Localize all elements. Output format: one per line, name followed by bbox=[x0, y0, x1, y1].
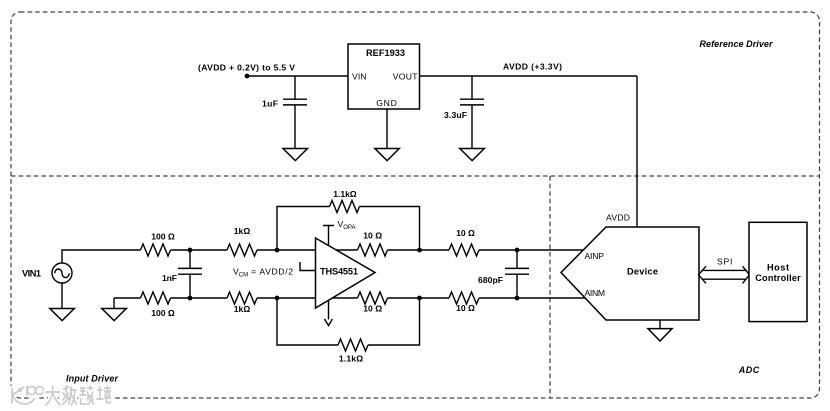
wire R9 to AINP bbox=[479, 249, 584, 251]
svg-text:Controller: Controller bbox=[755, 273, 801, 283]
ground stub opamp bbox=[328, 300, 330, 320]
svg-text:VIN1: VIN1 bbox=[22, 269, 41, 279]
wire R8 to R10 bbox=[388, 297, 450, 299]
ground bottom rail bbox=[113, 298, 115, 309]
svg-text:AVDD: AVDD bbox=[606, 213, 630, 223]
svg-text:AINM: AINM bbox=[585, 288, 606, 298]
wire R3 to opamp bbox=[257, 249, 316, 251]
wire R1 to R3 bbox=[171, 249, 228, 251]
node feedback top dot bbox=[275, 248, 280, 253]
wire feedback top right bbox=[360, 207, 420, 251]
resistor R4 1k bottom bbox=[227, 292, 257, 304]
resistor R3 1k top bbox=[227, 244, 257, 256]
svg-text:1nF: 1nF bbox=[162, 273, 177, 283]
wire VOUT to AVDD net bbox=[420, 75, 638, 77]
capacitor C1 1uF bbox=[294, 76, 296, 149]
resistor R2 100 ohm bottom bbox=[141, 292, 171, 304]
divider Reference Driver / Input Driver+ADC bbox=[11, 175, 820, 177]
wire opamp out top bbox=[336, 249, 358, 251]
wire R7 to R9 bbox=[388, 249, 450, 251]
resistor R9 10 ohm top right bbox=[449, 244, 479, 256]
node cap top dot bbox=[515, 248, 520, 253]
svg-text:1kΩ: 1kΩ bbox=[234, 226, 251, 236]
ground VIN1 bbox=[61, 283, 63, 309]
svg-text:1kΩ: 1kΩ bbox=[234, 304, 251, 314]
op-amp U1 THS4551 bbox=[316, 238, 376, 308]
svg-text:VIN: VIN bbox=[352, 72, 367, 82]
wire opamp out bottom bbox=[333, 297, 358, 299]
wire VIN1 to R1 bbox=[62, 250, 141, 263]
device ADC pentagon bbox=[561, 227, 699, 320]
resistor R6 1.1k bottom bbox=[338, 339, 368, 351]
svg-text:3.3uF: 3.3uF bbox=[444, 110, 467, 120]
svg-text:VOUT: VOUT bbox=[393, 72, 418, 82]
svg-text:REF1933: REF1933 bbox=[366, 48, 405, 58]
node out bottom dot bbox=[417, 296, 422, 301]
svg-text:Device: Device bbox=[627, 267, 658, 277]
node feedback bottom dot bbox=[275, 296, 280, 301]
svg-text:GND: GND bbox=[376, 98, 397, 108]
wire AVDD down to Device bbox=[636, 76, 638, 227]
capacitor C3 1nF bbox=[189, 250, 191, 298]
wire supply to VIN bbox=[247, 75, 348, 77]
wire R4 to opamp bbox=[257, 297, 316, 299]
wire GND pin to ground bbox=[386, 109, 388, 149]
wire R10 to AINM bbox=[479, 297, 585, 299]
resistor R5 1.1k top bbox=[330, 201, 360, 213]
watermark logo bbox=[12, 386, 44, 404]
svg-text:Input Driver: Input Driver bbox=[66, 374, 118, 384]
op Host Controller box bbox=[749, 222, 807, 321]
node bottom input dot bbox=[188, 296, 193, 301]
divider Input Driver / ADC bbox=[549, 176, 551, 398]
svg-text:ADC: ADC bbox=[738, 365, 760, 375]
supply VOPA stub bbox=[323, 226, 334, 246]
resistor R1 100 ohm top bbox=[141, 244, 171, 256]
capacitor C4 680pF bbox=[516, 250, 518, 298]
svg-text:AINP: AINP bbox=[585, 251, 605, 261]
resistor R10 10 ohm bottom right bbox=[449, 292, 479, 304]
node top input dot bbox=[188, 248, 193, 253]
source VIN1 circle bbox=[52, 263, 72, 283]
resistor R8 10 ohm bottom bbox=[358, 292, 388, 304]
svg-text:680pF: 680pF bbox=[478, 275, 503, 285]
input VCM stub bbox=[300, 262, 316, 271]
wire ground to R2 bbox=[114, 297, 141, 299]
bus SPI double arrow bbox=[702, 270, 747, 279]
svg-text:1.1kΩ: 1.1kΩ bbox=[333, 189, 357, 199]
svg-text:(AVDD + 0.2V) to 5.5 V: (AVDD + 0.2V) to 5.5 V bbox=[198, 63, 295, 73]
wire R2 to R4 bbox=[171, 297, 228, 299]
svg-text:Reference Driver: Reference Driver bbox=[700, 39, 773, 49]
svg-text:Host: Host bbox=[767, 263, 789, 273]
svg-text:100 Ω: 100 Ω bbox=[151, 232, 175, 242]
svg-text:10 Ω: 10 Ω bbox=[456, 228, 475, 238]
svg-text:10 Ω: 10 Ω bbox=[363, 231, 382, 241]
op REF1933 box bbox=[348, 44, 420, 109]
svg-text:10 Ω: 10 Ω bbox=[456, 303, 475, 313]
capacitor C2 3.3uF bbox=[471, 76, 473, 149]
resistor R7 10 ohm top bbox=[358, 244, 388, 256]
svg-text:1.1kΩ: 1.1kΩ bbox=[339, 354, 363, 364]
node out top dot bbox=[417, 248, 422, 253]
svg-text:100 Ω: 100 Ω bbox=[151, 308, 175, 318]
watermark text da shu kua jing bbox=[46, 386, 111, 405]
ground below REF1933 bbox=[375, 149, 400, 161]
svg-text:10 Ω: 10 Ω bbox=[363, 304, 382, 314]
svg-text:AVDD (+3.3V): AVDD (+3.3V) bbox=[503, 62, 562, 72]
svg-text:THS4551: THS4551 bbox=[320, 267, 358, 277]
node input supply dot bbox=[245, 74, 250, 79]
node cap bottom dot bbox=[515, 296, 520, 301]
wire feedback bottom left bbox=[277, 298, 338, 345]
ground below Device bbox=[659, 320, 661, 329]
ground below C1 bbox=[283, 149, 308, 161]
svg-text:SPI: SPI bbox=[717, 257, 732, 267]
wire feedback bottom right bbox=[368, 298, 420, 345]
svg-text:1uF: 1uF bbox=[262, 99, 278, 109]
ground below C2 bbox=[460, 149, 485, 161]
wire feedback top left bbox=[277, 207, 330, 251]
